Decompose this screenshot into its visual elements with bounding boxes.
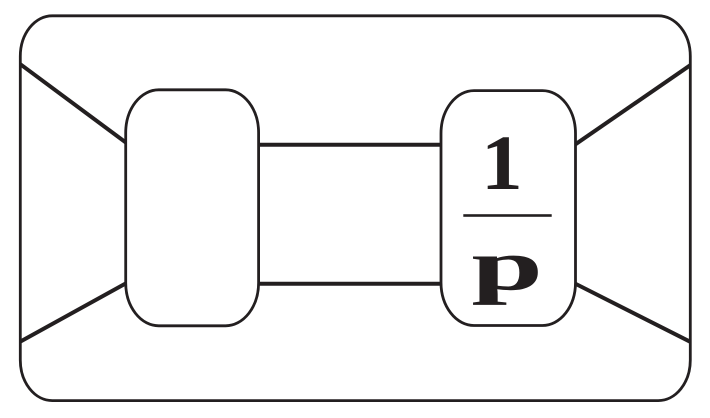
wire: top-left diagonal strand [20, 64, 126, 143]
wire: top-right diagonal strand [575, 65, 691, 145]
wire: bottom connector strand between boxes [258, 282, 443, 286]
node: left tangle box (empty) [126, 90, 259, 326]
node: right tangle box labeled 1/p [441, 91, 576, 326]
wire: bottom-left diagonal strand [20, 283, 126, 342]
label: fraction bar [463, 214, 551, 217]
svg-text:p: p [471, 225, 543, 305]
svg-text:1: 1 [481, 120, 523, 206]
wire: bottom-right diagonal strand [575, 283, 691, 341]
wire: top connector strand between boxes [258, 143, 443, 147]
